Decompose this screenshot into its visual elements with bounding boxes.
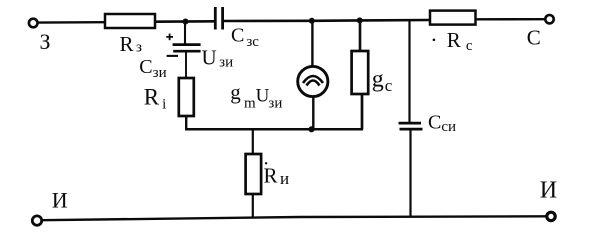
terminal И right [547, 212, 555, 220]
conductance gc [352, 51, 369, 94]
svg-text:И: И [52, 188, 68, 213]
capacitor Cзи minus sign [167, 55, 178, 57]
capacitor Cзи [173, 45, 201, 52]
capacitor Cзи plus sign [166, 34, 173, 41]
terminal З (gate) [29, 19, 38, 28]
wire top rail down to Cси [408, 20, 410, 123]
node D (source-side junction dot) [308, 126, 314, 132]
terminal И left (source) [32, 216, 41, 225]
wire gc down to node line [361, 94, 364, 129]
wire node B down to current source [311, 21, 313, 66]
node A (gate junction dot) [183, 19, 189, 25]
svg-text:З: З [40, 29, 51, 54]
wire node C down to gc [359, 20, 362, 51]
wire Rи to source rail [252, 194, 254, 217]
stray dot above Rи label [265, 162, 267, 164]
capacitor Cзс [215, 7, 222, 30]
wire Rз to node A [155, 20, 215, 23]
wire Rc to drain terminal [476, 18, 546, 20]
current source arc symbol outer [303, 76, 323, 83]
wire Cси down to source rail [409, 129, 411, 216]
wire Cзи down to Ri [185, 51, 187, 78]
node B (current source junction dot) [309, 18, 315, 24]
wire current source down to node D [312, 97, 314, 129]
resistor Ri [179, 78, 194, 116]
wire Ri bottom to internal node line [185, 116, 187, 129]
capacitor Cси [399, 123, 423, 129]
node C (gc junction dot) [357, 17, 363, 23]
current source gmUзи circle [298, 66, 328, 96]
internal node line [185, 128, 363, 131]
current source arc symbol inner [307, 81, 320, 86]
source rail [42, 216, 547, 220]
resistor Rc [430, 11, 476, 25]
resistor Rз [105, 14, 155, 28]
svg-text:С: С [527, 25, 541, 49]
wire node line down to Rи [252, 129, 254, 154]
svg-text:И: И [540, 178, 557, 204]
wire node A down to Cзи [184, 22, 186, 45]
wire gate terminal to Rз [38, 21, 105, 24]
stray dot left of Rc label [433, 39, 436, 42]
resistor Rи [246, 154, 262, 194]
terminal С (drain) [545, 15, 553, 23]
wire top rail Cзс to Rc [223, 20, 430, 21]
